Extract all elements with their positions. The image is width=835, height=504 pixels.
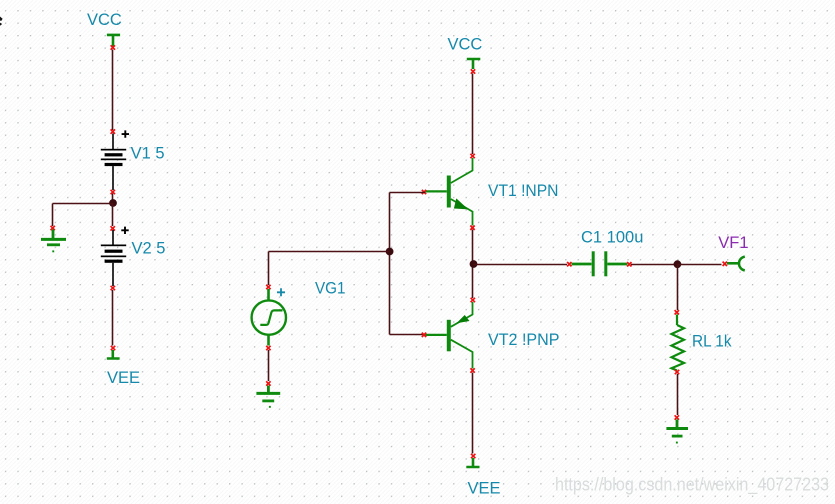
pin marker VEE center <box>471 454 475 458</box>
wire V1 to node A <box>112 194 114 204</box>
pin marker VF1 <box>723 262 727 266</box>
pin marker VT1 emitter <box>470 226 474 230</box>
pin marker RL bottom <box>675 370 679 374</box>
wire VT1 emitter to output node <box>472 230 474 265</box>
resistor RL <box>672 315 685 372</box>
wire VCC to VT1 collector <box>472 74 474 155</box>
svg-text:VF1: VF1 <box>718 234 748 252</box>
pin marker RL top <box>675 310 679 314</box>
transistor VT2 (PNP) <box>425 302 473 369</box>
pin marker VG1 - <box>266 346 270 350</box>
pin marker VEE left <box>111 346 115 350</box>
node B (base bus junction) <box>386 248 394 256</box>
pin marker V1 + <box>111 129 115 133</box>
ground (below RL) <box>666 420 688 444</box>
power symbol VCC (left) <box>107 35 120 47</box>
ground (below VG1) <box>256 386 280 408</box>
pin marker C1 left <box>567 262 571 266</box>
pin marker VT2 base <box>422 333 426 337</box>
wire node A to V2 <box>112 203 114 226</box>
power symbol VCC (center) <box>467 59 481 69</box>
pin marker VG1 + <box>266 285 270 289</box>
svg-text:VCC: VCC <box>448 35 483 53</box>
svg-text:V2 5: V2 5 <box>132 240 166 258</box>
svg-text:VG1: VG1 <box>315 280 346 298</box>
wire VG1 to node B (horizontal) <box>269 251 390 253</box>
svg-text:https://blog.csdn.net/weixin_4: https://blog.csdn.net/weixin_40727233 <box>555 474 829 496</box>
wire node D to VF1 <box>677 264 721 266</box>
wire RL to ground <box>677 374 679 415</box>
capacitor C1 <box>572 251 628 276</box>
pin marker VT1 base <box>422 190 426 194</box>
ground (left) <box>41 230 66 253</box>
node A (between V1 and V2) <box>109 199 117 207</box>
wire V2 to VEE (left) <box>112 290 114 346</box>
pin marker ground left <box>51 226 55 230</box>
wire VT2 collector to VEE <box>472 373 474 454</box>
pin marker V2 + <box>111 226 115 230</box>
wire output node to VT2 emitter <box>472 264 474 298</box>
svg-text:VT2 !PNP: VT2 !PNP <box>488 331 560 349</box>
pin marker VT2 collector <box>470 368 474 372</box>
wire base bus (vertical) <box>389 193 391 335</box>
polarity + of VG1 (teal) <box>277 288 285 296</box>
svg-text:C1 100u: C1 100u <box>581 228 643 246</box>
wire base bus to VT1 base <box>390 192 426 194</box>
svg-text:VEE: VEE <box>107 369 140 387</box>
wire node D to RL <box>677 265 679 311</box>
pin marker V1 - <box>111 190 115 194</box>
svg-text:V1 5: V1 5 <box>131 144 165 162</box>
node D (output/load junction) <box>674 260 682 268</box>
pin marker VT2 emitter <box>471 298 475 302</box>
wire node A to ground (vertical) <box>52 204 54 227</box>
power symbol VEE (left) <box>107 350 120 359</box>
node C (output junction at emitters) <box>470 260 478 268</box>
pin marker VT1 collector <box>470 154 474 158</box>
transistor VT1 (NPN) <box>425 158 473 226</box>
polarity + of V1 <box>122 130 129 137</box>
pin marker C1 right <box>627 262 631 266</box>
power symbol VEE (center) <box>466 458 479 467</box>
svg-text:VT1 !NPN: VT1 !NPN <box>488 182 559 200</box>
wire VG1 to node B (vertical) <box>268 252 270 286</box>
pin marker V2 - <box>111 286 115 290</box>
pin marker VCC left <box>111 45 115 49</box>
wire node A to ground (horizontal) <box>53 203 114 205</box>
battery V1 <box>101 134 126 191</box>
svg-text:RL 1k: RL 1k <box>692 333 732 351</box>
pin marker ground RL <box>675 415 679 419</box>
pin marker VCC center <box>471 69 475 73</box>
wire C1 to node D <box>631 264 677 266</box>
wire VG1 to ground <box>268 350 270 381</box>
svg-text:VCC: VCC <box>87 11 122 29</box>
battery V2 <box>101 230 126 286</box>
wire VCC to V1 <box>112 50 114 131</box>
pin marker ground VG1 <box>266 381 270 385</box>
polarity + of V2 <box>121 227 128 234</box>
screen-edge artifact (clipped cursor, top-left) <box>0 17 3 26</box>
generator VG1 <box>252 289 286 346</box>
wire base bus to VT2 base <box>390 334 426 336</box>
output pin VF1 <box>727 257 745 271</box>
wire output node to C1 <box>474 264 568 266</box>
svg-text:VEE: VEE <box>468 480 501 498</box>
